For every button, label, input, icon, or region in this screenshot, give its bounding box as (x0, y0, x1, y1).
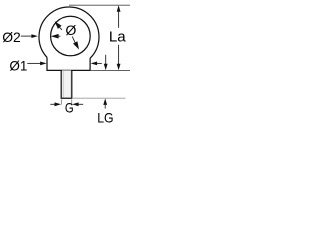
inner ring circle (hole) (51, 16, 91, 56)
hole diameter arrow (up-left) (55, 21, 62, 30)
svg-text:La: La (109, 30, 127, 46)
G extension line right (71, 99, 73, 104)
svg-text:LG: LG (97, 109, 113, 125)
outer ring circle (39, 7, 99, 58)
La dimension line bottom arrow (117, 45, 121, 70)
Ø2 inner arrow (inside hole, pointing left) (51, 34, 61, 39)
La dimension line top arrow (117, 5, 121, 28)
extension line (collar bottom) (90, 69, 130, 71)
G extension line left (60, 99, 62, 104)
svg-text:Ø1: Ø1 (9, 57, 27, 73)
G left arrow (50, 102, 61, 106)
hole diameter arrow (down-right) (72, 36, 79, 49)
extension line (ring top) (69, 4, 130, 6)
G right arrow (72, 102, 83, 106)
collar (47, 57, 90, 70)
LG outside arrow pointing up at thread end (103, 98, 107, 108)
threaded shank (61, 70, 72, 98)
background (0, 0, 130, 130)
extension line (thread end) (72, 97, 126, 99)
svg-text:Ø2: Ø2 (2, 29, 21, 45)
LG outside arrow pointing down at collar bottom (104, 55, 108, 70)
svg-text:Ø: Ø (65, 23, 76, 39)
svg-text:G: G (65, 99, 74, 115)
leader Ø1 left arrow (27, 62, 46, 66)
leader Ø2 (outer arrow) (21, 34, 38, 38)
Ø1 right arrow (91, 62, 102, 66)
